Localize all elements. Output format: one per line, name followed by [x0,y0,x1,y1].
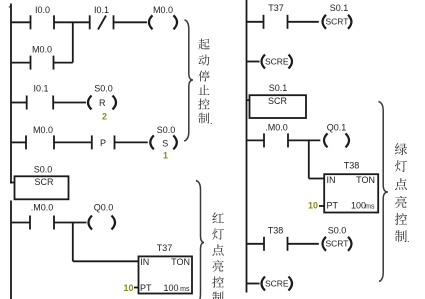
wire rung1 rail to I0.0 [11,21,31,23]
wire branch down to timer T38 [308,140,310,178]
svg-text:SCR: SCR [268,96,288,106]
svg-text:SCRE: SCRE [265,279,289,289]
wire rung5 rail to M0.0 [11,222,30,224]
svg-text:.M0.0: .M0.0 [265,122,288,132]
wire rung2 M0.0 to junction [54,62,73,64]
caption 起动停止控制 [198,39,212,126]
svg-text:P: P [100,138,106,148]
brace red-lamp control [196,181,204,299]
contact I0.1 (rung3) [26,96,28,110]
svg-text:S: S [162,139,168,149]
svg-text:S0.0: S0.0 [328,226,347,236]
svg-text:2: 2 [102,112,107,122]
left power rail (upper segment) [10,4,12,184]
brace green-lamp control [379,102,389,282]
wire rungD rail to T38 [247,243,265,245]
svg-text:SCRT: SCRT [326,16,349,26]
svg-text:I0.1: I0.1 [33,84,48,94]
wire rung1 I0.0 to I0.1 [54,21,90,23]
wire parallel branch riser [72,22,74,62]
wire rung2 rail to M0.0 [11,62,31,64]
svg-text:SCRT: SCRT [326,239,349,249]
svg-text:I0.1: I0.1 [94,5,109,15]
wire rung3 rail to I0.1 [11,102,27,104]
wire branch down to timer T37 [72,223,74,262]
svg-text:IN: IN [140,257,149,267]
contact T38 [263,237,265,251]
coil S0.0 SCRT (right) [323,237,327,251]
coil S0.0 reset (R) [88,96,92,110]
contact T37 [263,15,265,29]
brace start-stop control [184,20,193,141]
svg-text:SCRE: SCRE [265,57,289,67]
svg-text:10: 10 [123,283,133,293]
svg-text:ms: ms [365,204,375,211]
contact M0.0 (right) [263,133,265,147]
svg-text:S0.1: S0.1 [330,3,349,13]
wire rung5 M0.0 to coil [54,222,87,224]
contact M0.0 (parallel branch) [30,56,32,70]
left power rail (lower segment) [10,201,12,299]
wire stub rail to SCRE [247,61,260,63]
wire stub rail to SCR box right [247,99,250,101]
svg-text:TON: TON [356,175,375,185]
svg-text:T37: T37 [268,3,284,13]
coil S0.1 SCRT [323,15,327,29]
svg-text:S0.0: S0.0 [34,165,53,175]
wire rung1 I0.1 to coil [114,21,148,23]
svg-text:M0.0: M0.0 [153,5,173,15]
svg-text:100: 100 [351,201,366,211]
wire rungA rail to T37 [247,21,264,23]
coil SCRE (rungB) [262,55,266,69]
right power rail [246,0,248,293]
coil SCRE (rungE) [262,277,266,291]
contact P positive edge [91,135,93,149]
svg-text:PT: PT [327,201,339,211]
svg-text:.M0.0: .M0.0 [31,203,54,213]
svg-text:1: 1 [163,151,168,161]
svg-text:ms: ms [180,286,190,293]
svg-text:M0.0: M0.0 [33,125,53,135]
svg-text:Q0.0: Q0.0 [94,203,114,213]
wire stub rail to SCRE bottom [247,283,260,285]
svg-text:I0.0: I0.0 [35,5,50,15]
svg-text:S0.1: S0.1 [269,83,288,93]
rail top dot [9,6,10,8]
contact M0.0 (rung4) [25,135,27,149]
contact I0.1 normally-closed [89,15,91,29]
svg-text:S0.0: S0.0 [94,84,113,94]
svg-text:100: 100 [163,283,178,293]
timer T37 TON box [139,256,193,293]
SCR segment box S0.1 [250,95,307,118]
wire rung3 to reset coil [53,102,86,104]
coil Q0.0 [89,216,93,230]
SCR segment box S0.0 [15,176,69,199]
svg-text:PT: PT [140,283,152,293]
svg-text:M0.0: M0.0 [32,45,52,55]
caption 红灯点亮控制 [212,212,224,299]
wire rungC M0.0 to coil [288,139,320,141]
svg-text:SCR: SCR [34,177,54,187]
wire stub rail to SCR box [10,182,15,184]
svg-text:R: R [99,98,106,108]
contact M0.0 (rung5) [29,216,31,230]
wire rungC rail to M0.0 [247,139,265,141]
svg-text:.: . [210,116,213,126]
coil M0.0 [149,15,153,29]
coil Q0.1 [324,133,328,147]
caption 绿灯点亮控制 [395,143,410,244]
coil S0.0 set (S) [150,135,154,149]
wire rung4 P to set coil [115,141,148,143]
wire rungD T38 to coil [288,243,319,245]
svg-text:IN: IN [327,175,336,185]
wire rung4 M0.0 to P [54,141,92,143]
timer T38 TON box [324,174,378,212]
svg-text:Q0.1: Q0.1 [327,122,347,132]
svg-text:T38: T38 [268,226,284,236]
svg-text:TON: TON [171,257,190,267]
svg-text:S0.0: S0.0 [157,125,176,135]
svg-text:T37: T37 [157,243,173,253]
svg-text:10: 10 [308,201,318,211]
svg-text:T38: T38 [344,161,360,171]
svg-text:.: . [407,234,410,244]
contact I0.0 [30,15,32,29]
wire rungA T37 to coil [288,21,319,23]
wire rung4 rail to M0.0 [11,141,26,143]
